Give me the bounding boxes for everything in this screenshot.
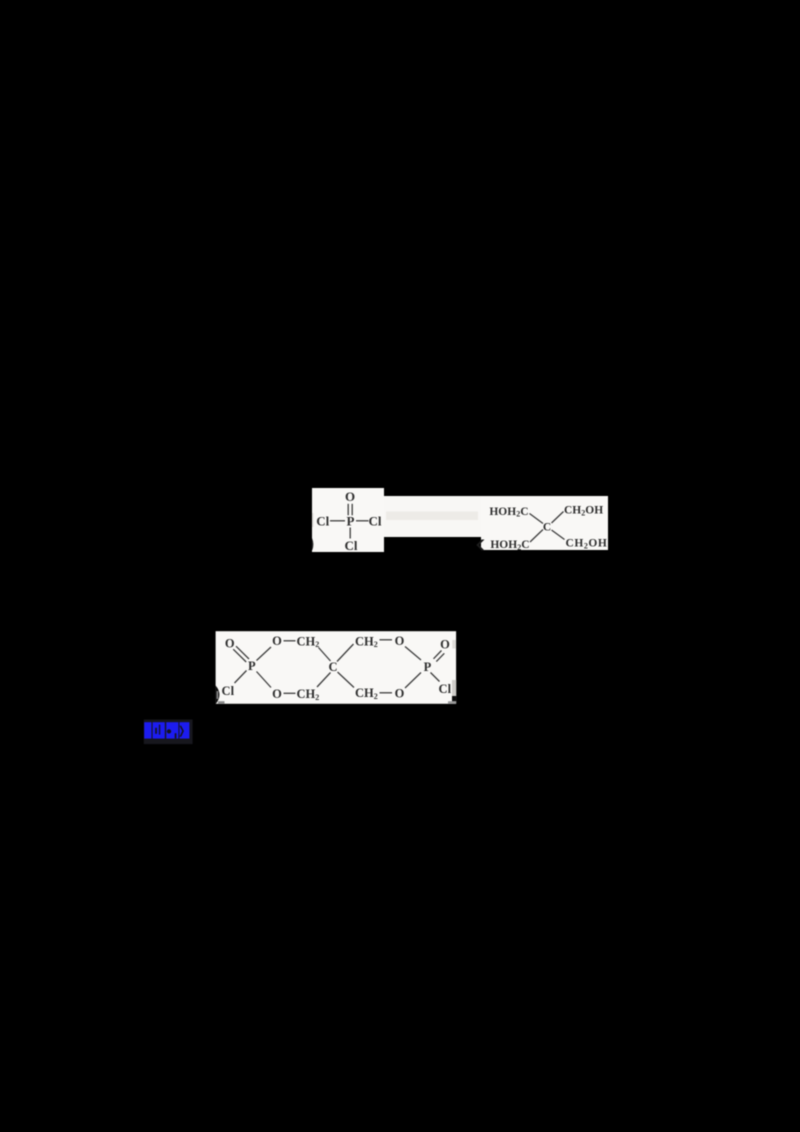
blue glyph block 1: [144, 722, 151, 738]
bond O to P right: [405, 647, 421, 661]
svg-text:C: C: [328, 660, 337, 674]
bond BL to C: [530, 530, 543, 543]
artifact: gray dash bottom-left of box3: [218, 701, 225, 703]
svg-text:O: O: [395, 687, 405, 701]
reactant panel: pentaerythritol white box: [481, 496, 608, 550]
svg-text:Cl: Cl: [316, 513, 329, 528]
svg-text:Cl: Cl: [369, 513, 382, 528]
bond P-Cl down: [349, 528, 351, 539]
svg-text:P: P: [347, 513, 355, 528]
bond P-Cl right: [356, 520, 369, 522]
artifact: light gray bar right edge near top O: [452, 640, 456, 649]
svg-text:O: O: [395, 634, 405, 648]
bond P-Cl right: [431, 673, 440, 682]
svg-text:O: O: [345, 489, 355, 504]
bond C to CH2 bottom-right: [338, 672, 355, 688]
svg-text:HOH2C: HOH2C: [490, 539, 529, 552]
artifact: light gray bar right edge near Cl: [452, 680, 456, 696]
faint gray line artifact at box1 left edge: [312, 513, 314, 527]
bond C to CH2 top-right: [337, 644, 354, 662]
reaction strip between boxes: [384, 496, 481, 537]
dark strokes inside label glyphs: [152, 722, 184, 738]
svg-text:C: C: [543, 522, 551, 534]
bond P to ring O top-left: [257, 647, 272, 661]
bond P-Cl left: [235, 671, 247, 684]
blue glyph block 2: [153, 722, 165, 738]
svg-text:P: P: [424, 660, 432, 674]
bond O-CH2 top-left: [284, 640, 296, 642]
bond P to ring O bottom-left: [257, 672, 272, 688]
artifact: gray dash bottom-right of box3: [448, 701, 456, 703]
artifact: black square right bottom corner: [452, 696, 456, 701]
bond CH2 to C bottom-left: [317, 673, 331, 688]
svg-text:O: O: [225, 636, 235, 650]
double bond P=O right: [434, 651, 445, 662]
bond TL to C: [530, 514, 544, 524]
dark sliver artifact bottom-left of box1: [312, 538, 313, 550]
bond O-CH2 bottom-left: [284, 692, 296, 694]
dark backdrop of label: [144, 720, 193, 745]
artifact: dark angle mark bottom-left corner of pentaerythritol box: [476, 540, 484, 551]
artifact: black partial parenthesis at box3 left edge: [216, 686, 220, 704]
double bond O=P: [348, 504, 352, 516]
svg-text:P: P: [248, 659, 256, 673]
double bond O=P left: [233, 646, 249, 662]
svg-text:O: O: [272, 634, 282, 648]
bond CH2-O top-right: [380, 639, 393, 641]
svg-text:HOH2C: HOH2C: [489, 506, 528, 519]
svg-text:Cl: Cl: [345, 538, 358, 553]
bond C to BR: [552, 530, 565, 540]
blue glyph block 3: [166, 722, 179, 738]
svg-text:Cl: Cl: [439, 682, 452, 696]
svg-text:Cl: Cl: [222, 684, 235, 698]
bond Cl-P: [330, 520, 345, 522]
bond CH2-O bottom-right: [380, 692, 393, 694]
bond CH2 to C top-left: [319, 648, 331, 662]
bond O to P right lower: [405, 673, 421, 689]
blue glyph block 4: [179, 722, 189, 738]
svg-text:O: O: [272, 687, 282, 701]
reactant panel: POCl3 white box: [312, 488, 384, 552]
bond C to TR: [552, 512, 564, 524]
svg-text:O: O: [440, 638, 450, 652]
faded arrow band in strip: [386, 512, 478, 521]
